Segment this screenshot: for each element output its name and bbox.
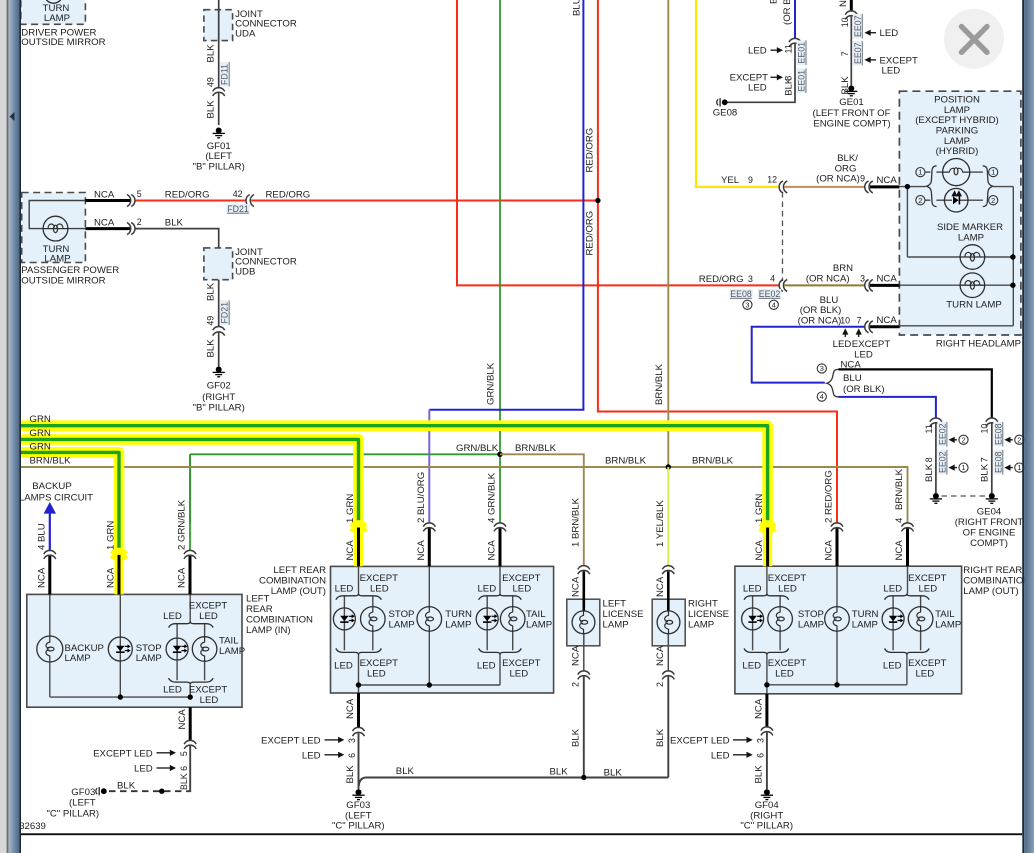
right license lamp (657, 611, 680, 634)
left OUT internal wires (358, 566, 360, 593)
svg-text:OUTSIDE MIRROR: OUTSIDE MIRROR (21, 275, 105, 286)
ground GF01 (216, 128, 222, 134)
svg-text:BLK: BLK (754, 765, 765, 784)
svg-text:BLK: BLK (165, 218, 184, 229)
svg-text:EXCEPT: EXCEPT (908, 573, 947, 584)
brace right headlamp (983, 166, 993, 207)
svg-text:1 GRN: 1 GRN (345, 494, 356, 523)
svg-text:STOP: STOP (798, 609, 824, 620)
joint connector UDA box (204, 10, 233, 41)
label LED arrow left (869, 32, 876, 34)
arrow circled 2 (1009, 439, 1013, 441)
svg-text:10: 10 (840, 17, 850, 27)
svg-text:NCA: NCA (94, 190, 115, 201)
svg-text:"C" PILLAR): "C" PILLAR) (46, 808, 99, 819)
svg-text:BLK: BLK (655, 728, 666, 747)
svg-text:RIGHT REAR: RIGHT REAR (963, 565, 1022, 576)
turn lamp left OUT (417, 607, 442, 632)
driver power outside mirror box (21, 0, 86, 24)
circled 1 right (989, 168, 998, 177)
svg-text:LICENSE: LICENSE (603, 609, 644, 620)
svg-text:NCA: NCA (487, 540, 498, 561)
svg-text:TAIL: TAIL (219, 636, 239, 647)
svg-text:49: 49 (205, 77, 215, 87)
svg-text:OF ENGINE: OF ENGINE (963, 528, 1016, 539)
svg-text:TAIL: TAIL (526, 609, 546, 620)
node side marker junction (1010, 254, 1015, 259)
svg-text:2 BLU/ORG: 2 BLU/ORG (416, 472, 427, 523)
svg-text:3: 3 (748, 274, 753, 284)
wire YEL vertical and to connector (696, 0, 780, 187)
svg-text:REAR: REAR (246, 604, 273, 615)
wire BLU (OR BLK) row3 from headlamp to brace (752, 327, 866, 383)
svg-text:NCA: NCA (824, 540, 835, 561)
svg-text:FD21: FD21 (227, 204, 249, 214)
svg-text:STOP: STOP (389, 609, 415, 620)
svg-text:RED/ORG: RED/ORG (165, 190, 210, 201)
svg-text:LED: LED (880, 28, 899, 39)
svg-text:LED: LED (334, 660, 353, 671)
connector exit left OUT (353, 727, 365, 731)
svg-text:LED: LED (200, 695, 219, 706)
svg-text:3: 3 (860, 274, 865, 284)
svg-text:EXCEPT: EXCEPT (908, 658, 947, 669)
svg-text:NCA: NCA (838, 0, 849, 7)
svg-text:LEFT REAR: LEFT REAR (273, 565, 326, 576)
wire RED/ORG main vertical (598, 0, 837, 523)
svg-text:3: 3 (820, 364, 824, 373)
svg-text:3: 3 (756, 738, 766, 743)
svg-text:BRN/BLK: BRN/BLK (605, 456, 647, 467)
svg-text:LED: LED (335, 584, 354, 595)
svg-text:EE08: EE08 (993, 423, 1003, 445)
svg-text:BLK: BLK (840, 76, 851, 95)
wire BLU vertical (429, 0, 583, 410)
node headlamp feed junction (905, 184, 910, 189)
connector link EE07 second (853, 41, 863, 66)
wire BLK bus to GF03 (359, 778, 669, 787)
svg-text:2: 2 (570, 682, 580, 687)
svg-text:LAMP: LAMP (44, 13, 70, 24)
node BRN/BLK junction (666, 464, 671, 469)
svg-text:1 GRN: 1 GRN (754, 494, 765, 523)
svg-text:LAMP: LAMP (852, 619, 878, 630)
wire YEL/BLK drop to right license lamp (667, 467, 669, 566)
wire BLK to splice GE08 (727, 44, 795, 103)
svg-text:8: 8 (924, 457, 934, 462)
svg-text:BRN: BRN (833, 263, 853, 274)
svg-text:(RIGHT: (RIGHT (202, 392, 235, 403)
in-line connector FD21 vertical (213, 326, 225, 330)
internal wires passenger mirror (29, 201, 85, 229)
svg-text:7: 7 (980, 457, 990, 462)
svg-text:(LEFT FRONT OF: (LEFT FRONT OF (813, 108, 891, 119)
svg-text:BLK 6: BLK 6 (179, 766, 189, 790)
svg-text:LAMP (OUT): LAMP (OUT) (271, 586, 326, 597)
wire BLK dashed to splice GF03 (109, 790, 186, 792)
svg-text:BLU: BLU (769, 0, 780, 4)
connector exit IN (184, 740, 196, 744)
svg-text:LAMP: LAMP (688, 620, 714, 631)
wire NCA right license (667, 571, 670, 611)
svg-text:ENGINE COMPT): ENGINE COMPT) (813, 119, 890, 130)
svg-text:10: 10 (840, 316, 850, 326)
svg-text:RED/ORG: RED/ORG (585, 128, 596, 173)
svg-text:NCA: NCA (345, 540, 356, 561)
joint connector UDB box (204, 248, 233, 280)
svg-text:1 BRN/BLK: 1 BRN/BLK (570, 497, 581, 547)
svg-text:(OR BLK): (OR BLK) (843, 384, 885, 395)
svg-text:UDB: UDB (235, 267, 255, 278)
wire BLK/ORG row1 (784, 186, 865, 188)
stop lamp LED (IN) (119, 637, 121, 661)
left license lamp box (567, 599, 600, 646)
wire GRN highlighted to left rear out (21, 439, 359, 521)
node turn lamp junction (1010, 283, 1015, 288)
svg-text:5: 5 (179, 751, 189, 756)
connector highlighted GRN x=119 (114, 556, 123, 595)
connector row2 right (865, 279, 869, 291)
svg-text:EXCEPT LED: EXCEPT LED (261, 735, 321, 746)
passenger power outside mirror box (22, 193, 86, 263)
svg-text:LAMP: LAMP (44, 254, 70, 265)
node left OUT pair1 (356, 682, 361, 687)
svg-text:EE02: EE02 (937, 451, 947, 473)
svg-text:RIGHT: RIGHT (688, 599, 718, 610)
svg-text:LAMP (OUT): LAMP (OUT) (963, 586, 1018, 597)
svg-text:"B" PILLAR): "B" PILLAR) (193, 403, 245, 414)
circled 2 left (916, 196, 925, 205)
svg-text:LAMP: LAMP (798, 619, 824, 630)
node tail bus exit (188, 694, 193, 699)
svg-text:BRN/BLK: BRN/BLK (515, 443, 557, 454)
tail LED lamp right OUT (892, 608, 894, 630)
wire BRN row2 (784, 284, 865, 286)
wire BLK 8 to ground GE04 left (935, 423, 937, 493)
svg-text:2: 2 (961, 435, 965, 444)
svg-text:BACKUP: BACKUP (32, 481, 71, 492)
wire BLK to joint connector UDB (135, 229, 219, 248)
wire NCA tail right out (906, 529, 909, 567)
ground GE04 left (933, 493, 939, 499)
svg-text:LED: LED (748, 83, 767, 94)
svg-text:EE01: EE01 (797, 42, 807, 64)
stop LED lamp right OUT (752, 608, 754, 630)
svg-text:LED: LED (918, 584, 937, 595)
wire right license to connector (667, 634, 669, 672)
connector 4 BRN/BLK (902, 523, 914, 527)
svg-text:BLK: BLK (980, 463, 991, 482)
svg-text:2: 2 (918, 196, 922, 205)
svg-text:32639: 32639 (19, 821, 46, 832)
svg-text:GF02: GF02 (207, 380, 231, 391)
wire NCA backup (48, 556, 51, 594)
wire NCA mirror pin 2 (85, 227, 130, 230)
wire NCA into headlamp row2 (870, 284, 899, 287)
svg-text:3: 3 (745, 300, 749, 309)
connector link EE02 second (937, 450, 947, 475)
svg-text:BRN/BLK: BRN/BLK (894, 468, 905, 510)
svg-text:LED: LED (509, 669, 528, 680)
connector link EE02 (937, 422, 947, 447)
svg-text:NCA: NCA (655, 645, 666, 666)
svg-text:1: 1 (991, 168, 995, 177)
svg-text:2: 2 (137, 217, 142, 227)
svg-text:(OR NCA): (OR NCA) (806, 274, 850, 285)
svg-text:EXCEPT: EXCEPT (768, 658, 807, 669)
svg-text:1 YEL/BLK: 1 YEL/BLK (655, 500, 666, 547)
ground GF03 (356, 789, 362, 795)
wire NCA turn left out (428, 529, 431, 567)
connector link EE07 (853, 14, 863, 39)
circled 4 (769, 300, 778, 309)
svg-text:LED: LED (163, 611, 182, 622)
svg-text:1 GRN: 1 GRN (106, 521, 117, 550)
splitters right OUT (744, 594, 789, 600)
connector row1 right (865, 181, 869, 193)
wire NCA mirror pin 5 (85, 199, 130, 202)
svg-text:TURN: TURN (852, 609, 879, 620)
svg-text:EXCEPT: EXCEPT (852, 339, 891, 350)
svg-text:NCA: NCA (877, 315, 898, 326)
svg-text:EXCEPT: EXCEPT (360, 658, 399, 669)
svg-text:LED: LED (748, 46, 767, 57)
wire NCA into headlamp row1 (870, 185, 899, 188)
wire RED/ORG to junction (251, 200, 598, 202)
ground GE04 right (989, 493, 995, 499)
svg-text:LED: LED (883, 584, 902, 595)
connector below right license (662, 671, 674, 675)
connector below left license (578, 671, 590, 675)
wire BRN/BLK from junction to license lamp (500, 454, 584, 566)
dashed connector group line (782, 192, 784, 281)
svg-text:EE02: EE02 (759, 289, 781, 299)
svg-text:NCA: NCA (345, 698, 356, 719)
svg-text:(RIGHT: (RIGHT (750, 810, 783, 821)
connector link EE08 second (993, 450, 1003, 475)
connector link FD21 (220, 300, 230, 325)
svg-text:9: 9 (748, 175, 753, 185)
left window gutter (0, 0, 21, 853)
svg-text:EXCEPT: EXCEPT (189, 601, 228, 612)
svg-text:"C" PILLAR): "C" PILLAR) (740, 821, 793, 832)
ground GF02 (216, 367, 222, 373)
dashed link between GE04 grounds (942, 495, 987, 497)
svg-text:EE01: EE01 (797, 70, 807, 92)
close button (944, 9, 1004, 69)
parking lamp LED (944, 188, 968, 212)
svg-text:NCA: NCA (416, 540, 427, 561)
connector 1 BRN/BLK license (578, 566, 590, 570)
svg-text:NCA: NCA (106, 567, 117, 588)
svg-text:(OR BL: (OR BL (782, 0, 793, 25)
svg-text:RIGHT HEADLAMP: RIGHT HEADLAMP (936, 338, 1021, 349)
wire BLK from UDB to ground GF02 (218, 280, 220, 327)
wire GRN/BLK drop to lamp IN (189, 454, 191, 523)
wire NCA into headlamp row3 (870, 325, 899, 328)
svg-text:LED: LED (743, 584, 762, 595)
svg-text:LEFT: LEFT (603, 599, 627, 610)
svg-text:GF03: GF03 (346, 800, 370, 811)
svg-text:(RIGHT FRONT: (RIGHT FRONT (955, 517, 1024, 528)
node dashed junction (159, 789, 164, 794)
headlamp internal wires (899, 186, 925, 188)
svg-text:NCA: NCA (94, 218, 115, 229)
svg-text:EE08: EE08 (730, 289, 752, 299)
wire NCA turn right out (836, 529, 839, 567)
wire NCA exit IN box (189, 707, 192, 741)
turn lamp headlamp (960, 273, 985, 298)
svg-text:(HYBRID): (HYBRID) (936, 146, 979, 157)
connector exit right OUT (761, 727, 773, 731)
svg-text:FD11: FD11 (220, 64, 230, 85)
svg-text:4: 4 (770, 273, 775, 283)
arrow circled 1 (953, 467, 957, 469)
svg-text:LED: LED (915, 669, 934, 680)
label EXCEPT LED arrow left (869, 59, 876, 61)
connector link FD21 (226, 204, 250, 214)
svg-text:LED: LED (163, 684, 182, 695)
bottom page border (21, 833, 1022, 835)
svg-text:EXCEPT: EXCEPT (189, 684, 228, 695)
svg-text:BLK: BLK (345, 765, 356, 784)
svg-text:BLK: BLK (550, 767, 569, 778)
svg-text:LAMP: LAMP (136, 653, 162, 664)
svg-text:LAMP: LAMP (65, 653, 91, 664)
svg-text:(LEFT: (LEFT (69, 798, 96, 809)
wire BRN/BLK vertical (667, 0, 669, 467)
svg-text:BLK: BLK (784, 77, 795, 96)
right rear combination lamp OUT box (735, 566, 962, 694)
svg-text:NCA: NCA (570, 576, 581, 597)
connector 2 GRN/BLK (184, 550, 196, 554)
wire BLU backup with arrow (44, 502, 56, 514)
svg-text:(LEFT: (LEFT (205, 151, 232, 162)
svg-text:7: 7 (857, 316, 862, 326)
tail LED lamp left OUT (486, 608, 488, 630)
svg-text:1: 1 (1017, 463, 1021, 472)
svg-text:GRN: GRN (30, 414, 51, 425)
svg-text:RED/ORG: RED/ORG (266, 190, 311, 201)
svg-text:GRN: GRN (30, 428, 51, 439)
svg-text:GF04: GF04 (755, 800, 780, 811)
svg-text:EXCEPT: EXCEPT (768, 573, 807, 584)
svg-text:LED: LED (742, 660, 761, 671)
svg-text:COMBINATION: COMBINATION (963, 575, 1030, 586)
svg-text:EXCEPT: EXCEPT (360, 573, 399, 584)
connector 2 BLU/ORG (423, 523, 435, 527)
connector EE07 (845, 11, 857, 15)
svg-text:LED: LED (477, 660, 496, 671)
wire GRN highlighted to left rear in (21, 452, 119, 549)
svg-text:10: 10 (980, 424, 990, 434)
wire NCA exit left OUT (357, 693, 360, 728)
svg-text:EXCEPT LED: EXCEPT LED (93, 748, 153, 759)
brace left headlamp (926, 166, 936, 207)
wire BLK exit IN (186, 746, 190, 791)
svg-text:EE08: EE08 (993, 451, 1003, 473)
connector link FD11 (220, 62, 230, 87)
svg-text:LED: LED (370, 584, 389, 595)
wire BLK from driver mirror to joint connector UDA and ground (218, 0, 220, 88)
svg-text:GRN: GRN (30, 442, 51, 453)
svg-text:2: 2 (991, 196, 995, 205)
svg-text:11: 11 (924, 424, 934, 433)
svg-text:12: 12 (767, 175, 777, 185)
svg-text:2: 2 (655, 682, 665, 687)
svg-text:(OR NCA): (OR NCA) (816, 174, 860, 185)
turn lamp (driver mirror, cut off) (44, 0, 62, 3)
wire GRN highlighted to right rear lamp (21, 426, 768, 522)
wire NCA top drop to GE01 (850, 0, 853, 12)
svg-text:NCA: NCA (36, 567, 47, 588)
connector row3 right (865, 321, 869, 333)
left license lamp (572, 611, 595, 634)
svg-text:BRN/BLK: BRN/BLK (692, 456, 734, 467)
svg-text:LED: LED (477, 584, 496, 595)
svg-text:GF01: GF01 (207, 141, 231, 152)
stop LED lamp left OUT (343, 608, 345, 630)
svg-text:LAMP: LAMP (935, 619, 961, 630)
svg-text:BLK: BLK (205, 44, 216, 63)
svg-text:EE07: EE07 (853, 15, 863, 37)
svg-text:EXCEPT: EXCEPT (502, 658, 541, 669)
svg-text:3: 3 (347, 738, 357, 743)
svg-text:TAIL: TAIL (935, 609, 955, 620)
svg-text:GRN/BLK: GRN/BLK (456, 443, 499, 454)
svg-text:OUTSIDE MIRROR: OUTSIDE MIRROR (21, 37, 105, 48)
in-line connector FD11 (213, 88, 225, 92)
svg-text:BLK: BLK (117, 780, 136, 791)
svg-text:GF03: GF03 (71, 787, 95, 798)
svg-text:6: 6 (347, 753, 357, 758)
wire NCA tail left out (499, 529, 502, 567)
svg-text:BLK: BLK (205, 100, 216, 119)
svg-text:COMPT): COMPT) (970, 538, 1008, 549)
wire BLU (OR BLK) top drop (794, 0, 796, 39)
turn lamp (passenger mirror) (43, 216, 68, 241)
svg-text:GRN/BLK: GRN/BLK (486, 362, 497, 405)
svg-text:4: 4 (894, 517, 905, 523)
tail LED lamp IN (176, 638, 178, 660)
connector link EE02 (758, 289, 782, 299)
connector link EE08 (729, 289, 753, 299)
wire NCA exit right OUT (765, 694, 768, 728)
svg-text:EE07: EE07 (853, 42, 863, 64)
svg-text:NCA: NCA (754, 540, 765, 561)
circled 3 (743, 300, 752, 309)
arrow circled 1 (1009, 467, 1013, 469)
svg-text:LED: LED (833, 339, 852, 350)
node GRN/BLK junction (497, 452, 502, 457)
connector link EE01 (797, 40, 807, 65)
node BLK bus (581, 775, 586, 780)
svg-text:NCA: NCA (570, 645, 581, 666)
svg-text:BLK: BLK (924, 463, 935, 482)
wire BLK 7 to ground GE04 right (991, 423, 993, 493)
svg-text:1: 1 (961, 463, 965, 472)
connector EE08 drop (986, 418, 998, 422)
node RED/ORG junction (595, 198, 600, 203)
svg-text:BLU: BLU (843, 373, 862, 384)
wire RED/ORG to FD21 (135, 200, 247, 202)
svg-text:LED: LED (199, 611, 218, 622)
svg-text:NCA: NCA (894, 540, 905, 561)
connector link EE08 (993, 422, 1003, 447)
svg-text:YEL: YEL (721, 175, 740, 186)
tail filament lamp left OUT (500, 607, 525, 632)
svg-text:PASSENGER POWER: PASSENGER POWER (21, 265, 119, 276)
